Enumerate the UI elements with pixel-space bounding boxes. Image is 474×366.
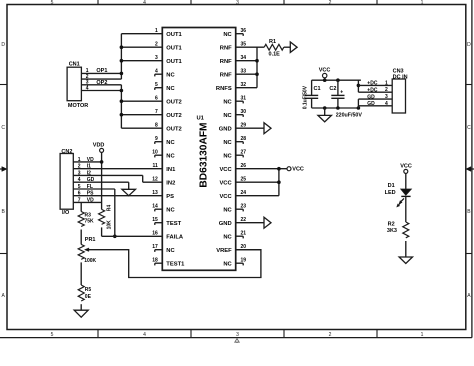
connector CN3 body [392, 79, 405, 113]
svg-text:NC: NC [223, 234, 232, 240]
svg-text:VDD: VDD [93, 143, 105, 149]
CN2 pin 2 wire I1 [73, 164, 162, 170]
CN1 pin 3 wire [81, 80, 121, 86]
U1 pin 35 RNF [220, 41, 247, 51]
U1 pin 32 RNFS [216, 82, 246, 92]
svg-text:31: 31 [241, 95, 247, 101]
CN3 pin 1 wire +DC [358, 80, 392, 86]
svg-text:3: 3 [155, 55, 158, 61]
svg-text:PS: PS [87, 191, 94, 197]
CN1 pin 1 wire [81, 68, 121, 74]
svg-text:PR1: PR1 [85, 237, 96, 243]
U1 pin 2 OUT1 [155, 41, 183, 51]
svg-text:NC: NC [223, 113, 232, 119]
svg-text:12: 12 [152, 176, 158, 182]
svg-text:OUT2: OUT2 [166, 113, 181, 119]
U1 pin 1 OUT1 [155, 28, 183, 38]
svg-text:20: 20 [241, 244, 247, 250]
junction dots RNF [255, 59, 259, 76]
resistor R4 [99, 205, 113, 237]
junction dots GND rail [323, 106, 360, 110]
ground symbol at input [318, 115, 332, 122]
svg-text:22: 22 [241, 217, 247, 223]
svg-text:OP1: OP1 [96, 68, 107, 74]
wire LED to R2 [405, 196, 407, 222]
svg-text:GD: GD [87, 177, 95, 183]
wire IN2 jog [143, 175, 163, 182]
svg-text:27: 27 [241, 149, 247, 155]
CN1 pin 2 wire [81, 74, 121, 80]
svg-text:4: 4 [385, 101, 388, 107]
svg-text:TEST1: TEST1 [166, 261, 185, 267]
ground symbol after R1 [290, 42, 297, 52]
bottom zone ticks [97, 330, 99, 338]
wire GND pin 22 [236, 222, 264, 224]
U1 pin 4 NC [155, 68, 176, 78]
svg-text:R2: R2 [388, 222, 395, 228]
U1 pin 29 GND [219, 122, 246, 132]
svg-text:U1: U1 [197, 116, 205, 122]
svg-text:R4: R4 [106, 205, 112, 212]
wire VDD vertical to R4 [101, 162, 103, 210]
U1 pin 19 NC [223, 257, 246, 267]
svg-text:D: D [467, 42, 471, 48]
svg-text:25: 25 [241, 176, 247, 182]
svg-text:R3: R3 [85, 212, 92, 218]
U1 pin 10 NC [152, 149, 175, 159]
ground stub at input [324, 108, 326, 115]
svg-text:OUT1: OUT1 [166, 59, 182, 65]
svg-text:10K: 10K [106, 220, 112, 230]
svg-text:1: 1 [155, 28, 158, 34]
svg-text:GND: GND [219, 126, 232, 132]
svg-text:RNF: RNF [220, 45, 232, 51]
ground symbol below R5 [74, 310, 88, 317]
capacitor C1 [305, 80, 321, 108]
U1 pin 12 IN2 [152, 176, 175, 186]
right center mark [466, 167, 474, 172]
svg-text:75K: 75K [85, 219, 95, 225]
svg-text:VCC: VCC [400, 163, 412, 169]
U1 pin 30 NC [223, 109, 246, 119]
U1 pin 34 RNF [220, 55, 247, 65]
svg-text:I2: I2 [87, 170, 91, 176]
svg-text:1: 1 [421, 0, 424, 6]
svg-text:I/O: I/O [62, 210, 70, 216]
svg-text:4: 4 [78, 177, 81, 183]
left zone ticks [0, 84, 7, 86]
bottom center mark [235, 339, 239, 343]
svg-text:D: D [1, 42, 5, 48]
svg-text:NC: NC [166, 207, 175, 213]
resistor R1 [264, 39, 290, 57]
svg-text:10: 10 [152, 149, 158, 155]
wire FAILA horizontal [102, 235, 163, 237]
svg-text:0.1E: 0.1E [269, 52, 281, 58]
svg-text:VD: VD [87, 197, 94, 203]
CN3 pin 2 wire +DC [358, 87, 392, 93]
ground symbol below R2 [399, 257, 412, 264]
CN2 pin 4 wire GD [73, 177, 128, 183]
svg-text:23: 23 [241, 203, 247, 209]
svg-text:6: 6 [78, 191, 81, 197]
U1 pin 5 NC [155, 82, 176, 92]
svg-text:LED: LED [385, 190, 396, 196]
wire OUT1 bus net OP1 [121, 34, 162, 79]
svg-text:28: 28 [241, 136, 247, 142]
svg-text:3K3: 3K3 [387, 228, 397, 234]
power flag VCC at input [319, 68, 331, 81]
svg-text:TEST: TEST [166, 221, 181, 227]
svg-text:NC: NC [223, 261, 232, 267]
svg-text:R1: R1 [269, 39, 276, 45]
svg-text:NC: NC [166, 72, 175, 78]
svg-text:NC: NC [166, 86, 175, 92]
svg-text:R5: R5 [85, 287, 92, 293]
svg-text:5: 5 [78, 184, 81, 190]
outer border right [471, 0, 473, 338]
svg-text:OP2: OP2 [96, 80, 107, 86]
svg-text:14: 14 [152, 203, 158, 209]
U1 pin 17 NC [152, 244, 175, 254]
svg-text:6: 6 [155, 95, 158, 101]
svg-text:NC: NC [223, 99, 232, 105]
svg-text:NC: NC [166, 140, 175, 146]
U1 pin 9 NC [155, 136, 176, 146]
svg-text:5: 5 [51, 332, 54, 338]
svg-text:C2: C2 [329, 86, 336, 92]
svg-text:NC: NC [223, 140, 232, 146]
connector CN3 label [393, 68, 408, 80]
junction dots VCC rail [323, 78, 340, 82]
wire RNF bus [236, 47, 265, 87]
resistor R2 [387, 222, 409, 238]
svg-text:MOTOR: MOTOR [68, 103, 88, 109]
svg-text:30: 30 [241, 109, 247, 115]
U1 pin 26 VCC [219, 163, 246, 173]
svg-text:4: 4 [155, 68, 158, 74]
potentiometer PR1 [78, 230, 96, 265]
junction dot VDD at CN2 pin 1 [100, 160, 104, 164]
svg-text:OUT2: OUT2 [166, 99, 181, 105]
svg-text:2: 2 [155, 41, 158, 47]
svg-text:VREF: VREF [216, 248, 232, 254]
wire FL to FAILA [114, 189, 116, 236]
svg-text:VCC: VCC [219, 167, 232, 173]
U1 pin 33 RNF [220, 68, 247, 78]
svg-text:29: 29 [241, 122, 247, 128]
svg-text:21: 21 [241, 230, 247, 236]
svg-text:2: 2 [78, 164, 81, 170]
connector CN1 body [67, 67, 81, 101]
right zone ticks [466, 84, 472, 86]
svg-text:7: 7 [78, 197, 81, 203]
svg-text:RNF: RNF [220, 72, 232, 78]
svg-text:OUT1: OUT1 [166, 45, 182, 51]
svg-text:IN1: IN1 [166, 167, 176, 173]
wire PR1 wiper to VREF [89, 250, 261, 278]
svg-text:0.1uF/50V: 0.1uF/50V [303, 85, 309, 109]
U1 pin 14 NC [152, 203, 175, 213]
wire R2 to ground [405, 241, 407, 257]
wire GND pin 29 [236, 127, 264, 129]
svg-text:VCC: VCC [219, 180, 232, 186]
svg-text:1: 1 [385, 80, 388, 86]
svg-text:17: 17 [152, 244, 158, 250]
svg-text:33: 33 [241, 68, 247, 74]
svg-text:3: 3 [236, 332, 239, 338]
svg-text:+DC: +DC [367, 87, 378, 93]
svg-text:2: 2 [329, 332, 332, 338]
top zone ticks [97, 0, 99, 5]
U1 pin 36 NC [223, 28, 246, 38]
svg-text:+: + [340, 90, 343, 96]
U1 pin 6 OUT2 [155, 95, 182, 105]
svg-text:3: 3 [78, 170, 81, 176]
U1 pin 25 VCC [219, 176, 246, 186]
svg-text:NC: NC [223, 32, 232, 38]
svg-text:19: 19 [241, 257, 247, 263]
svg-text:16: 16 [152, 230, 158, 236]
U1 pin 7 OUT2 [155, 109, 182, 119]
svg-text:RNFS: RNFS [216, 86, 232, 92]
wire GD vertical [357, 99, 359, 108]
svg-text:4: 4 [86, 85, 89, 91]
svg-text:C: C [1, 125, 5, 131]
U1 pin 3 OUT1 [155, 55, 183, 65]
svg-text:GD: GD [367, 101, 375, 107]
CN2 pin 3 wire I2 [73, 170, 142, 176]
svg-text:0E: 0E [85, 294, 92, 300]
CN2 pin 6 wire PS [73, 191, 162, 197]
wire +DC vertical [357, 80, 359, 92]
CN2 pin 1 wire VD [73, 157, 101, 163]
svg-text:VCC: VCC [219, 194, 232, 200]
wire VREF pin 20 [236, 249, 261, 251]
svg-text:C: C [467, 125, 471, 131]
junction dots OP1 [120, 45, 124, 75]
CN3 pin 4 wire GD [358, 101, 392, 107]
svg-text:4: 4 [143, 332, 146, 338]
svg-text:4: 4 [143, 0, 146, 6]
U1 pin 22 GND [219, 217, 246, 227]
svg-text:NC: NC [166, 153, 175, 159]
svg-text:NC: NC [223, 207, 232, 213]
svg-text:FAILA: FAILA [166, 234, 184, 240]
svg-text:PS: PS [166, 194, 174, 200]
svg-text:3: 3 [385, 94, 388, 100]
CN2 pin 5 wire FL [73, 184, 115, 190]
ground symbol at GD [122, 189, 136, 195]
connector CN2 body [60, 154, 73, 210]
power flag VCC at LED [400, 163, 412, 189]
svg-text:NC: NC [223, 153, 232, 159]
CN2 pin 7 wire VD [73, 197, 101, 203]
power flag VDD [93, 143, 105, 162]
wire VCC rail top [312, 79, 361, 81]
svg-text:100K: 100K [84, 258, 96, 264]
ground GD stub [128, 182, 130, 189]
svg-text:26: 26 [241, 163, 247, 169]
U1 pin 11 IN1 [153, 163, 177, 173]
left center mark [0, 167, 7, 172]
svg-text:BD63130AFM: BD63130AFM [198, 122, 209, 187]
svg-text:2: 2 [329, 0, 332, 6]
svg-text:11: 11 [153, 163, 159, 169]
svg-text:IN2: IN2 [166, 180, 175, 186]
svg-text:18: 18 [152, 257, 158, 263]
junction dots VCC bus [277, 167, 281, 184]
wire GND rail bottom [312, 107, 359, 109]
svg-text:15: 15 [152, 217, 158, 223]
svg-text:FL: FL [87, 184, 93, 190]
resistor R5 [78, 262, 91, 310]
svg-text:7: 7 [155, 109, 158, 115]
CN1 pin 4 wire [81, 85, 121, 91]
wire VCC bus [236, 169, 287, 196]
U1 pin 18 TEST1 [152, 257, 185, 267]
svg-text:36: 36 [241, 28, 247, 34]
U1 pin 13 PS [152, 190, 174, 200]
outer border bottom [0, 337, 472, 339]
svg-text:I1: I1 [87, 164, 91, 170]
LED D1 [385, 183, 412, 207]
svg-text:OUT2: OUT2 [166, 126, 181, 132]
svg-text:8: 8 [155, 122, 158, 128]
CN3 pin 3 wire GD [358, 94, 392, 100]
U1 pin 21 NC [223, 230, 246, 240]
svg-text:GD: GD [367, 94, 375, 100]
op-amp U1 BD63130AFM IC body [162, 28, 235, 271]
U1 pin 23 NC [223, 203, 246, 213]
ground symbol at pin 29 [264, 123, 271, 134]
junction dot FAILA [113, 235, 117, 239]
svg-text:1: 1 [421, 332, 424, 338]
U1 pin 28 NC [223, 136, 246, 146]
svg-text:32: 32 [241, 82, 247, 88]
U1 pin 16 FAILA [152, 230, 184, 240]
svg-text:VCC: VCC [319, 68, 331, 74]
svg-text:2: 2 [385, 87, 388, 93]
junction dot +DC [357, 84, 361, 88]
svg-text:24: 24 [241, 190, 247, 196]
U1 pin 8 OUT2 [155, 122, 182, 132]
svg-text:+DC: +DC [367, 81, 378, 87]
resistor R3 [78, 202, 94, 226]
svg-text:220uF/50V: 220uF/50V [336, 113, 363, 119]
power flag VCC at pin 26 [287, 167, 304, 173]
svg-text:9: 9 [155, 136, 158, 142]
svg-text:1: 1 [78, 157, 81, 163]
svg-text:GND: GND [219, 221, 232, 227]
svg-text:34: 34 [241, 55, 247, 61]
svg-text:C1: C1 [314, 86, 321, 92]
svg-text:VCC: VCC [292, 167, 304, 173]
U1 pin 27 NC [223, 149, 246, 159]
svg-text:5: 5 [155, 82, 158, 88]
capacitor C2 [329, 80, 344, 108]
svg-text:OUT1: OUT1 [166, 32, 182, 38]
ground symbol at pin 22 [264, 217, 271, 228]
U1 pin 15 TEST [152, 217, 181, 227]
svg-text:D1: D1 [388, 183, 395, 189]
svg-text:13: 13 [152, 190, 158, 196]
svg-text:RNF: RNF [220, 59, 232, 65]
junction dots OP2 [120, 89, 124, 117]
svg-text:5: 5 [51, 0, 54, 6]
svg-text:3: 3 [236, 0, 239, 6]
svg-text:NC: NC [166, 248, 175, 254]
svg-text:VD: VD [87, 157, 94, 163]
U1 pin 20 VREF [216, 244, 246, 254]
svg-text:35: 35 [241, 41, 247, 47]
U1 pin 24 VCC [219, 190, 246, 200]
wire OUT2 bus net OP2 [121, 85, 162, 128]
U1 pin 31 NC [223, 95, 246, 105]
